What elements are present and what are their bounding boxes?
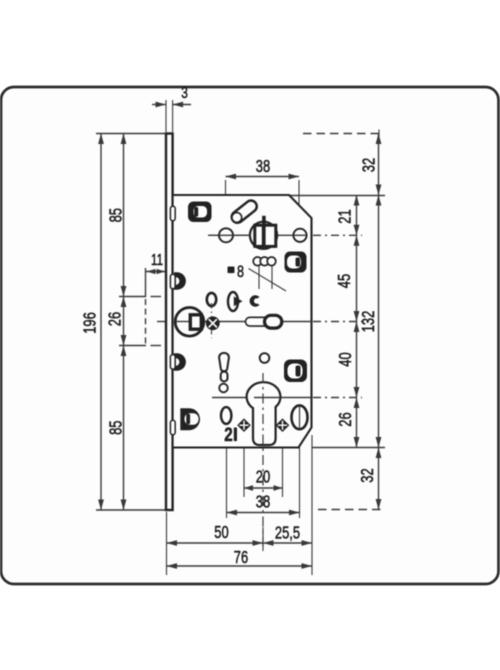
svg-text:196: 196 — [81, 312, 100, 334]
svg-text:76: 76 — [234, 548, 248, 567]
svg-text:85: 85 — [107, 208, 126, 222]
svg-text:40: 40 — [336, 352, 355, 366]
svg-text:32: 32 — [360, 158, 379, 172]
svg-text:50: 50 — [214, 523, 228, 542]
svg-text:85: 85 — [107, 421, 126, 435]
svg-text:2: 2 — [224, 423, 232, 445]
svg-text:32: 32 — [358, 468, 377, 482]
svg-text:11: 11 — [151, 251, 163, 268]
svg-text:45: 45 — [335, 274, 354, 288]
svg-text:8: 8 — [237, 262, 244, 281]
svg-text:3: 3 — [181, 83, 188, 101]
svg-text:25,5: 25,5 — [275, 524, 300, 543]
svg-text:26: 26 — [106, 312, 125, 326]
svg-text:38: 38 — [256, 157, 270, 176]
svg-text:132: 132 — [359, 311, 378, 333]
svg-text:21: 21 — [336, 209, 355, 223]
svg-text:26: 26 — [336, 412, 355, 426]
